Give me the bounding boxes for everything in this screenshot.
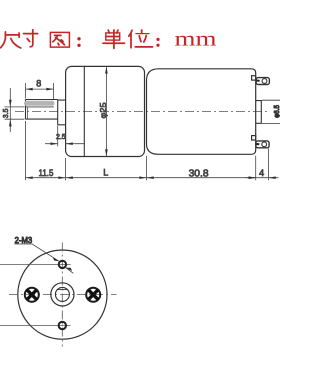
right screw	[86, 288, 100, 302]
dim 2.5 line	[45, 143, 84, 145]
svg-text:30.8: 30.8	[189, 168, 209, 179]
dim 2.5 arrows (outside)	[51, 142, 73, 145]
dim 4 tails	[246, 177, 279, 179]
bottom mounting hole M3	[59, 322, 66, 329]
center hub outer	[51, 283, 74, 306]
shaft outline	[26, 100, 58, 120]
svg-text:mm: mm	[175, 28, 217, 50]
top mounting hole M3	[59, 261, 66, 268]
left screw	[25, 288, 39, 302]
svg-text:2.5: 2.5	[56, 134, 66, 141]
svg-text:L: L	[103, 168, 108, 178]
shaft flat (grey)	[27, 101, 53, 106]
boss extension lines	[262, 100, 280, 123]
terminal bottom hole	[262, 142, 267, 147]
bore D-flat	[58, 289, 68, 291]
svg-text:11.5: 11.5	[39, 168, 54, 179]
dim φ25 arrows	[105, 66, 108, 156]
arrows 30.8	[147, 176, 256, 179]
terminal bottom tab	[252, 136, 256, 140]
svg-text:3.5: 3.5	[3, 108, 10, 118]
gearbox front plate line	[83, 67, 85, 157]
glyph 图	[50, 32, 69, 47]
terminal top dash	[257, 80, 260, 82]
leader line to bottom hole (from left edge)	[0, 325, 71, 327]
arrows 4 (outside)	[249, 176, 276, 179]
terminal bottom dash	[257, 143, 260, 145]
vertical centerline	[61, 243, 63, 347]
arrows L	[66, 176, 147, 179]
gearbox body	[66, 66, 145, 156]
centerline (side view axis)	[15, 111, 270, 113]
label underline + leader	[15, 244, 59, 261]
fullwidth colon 1	[77, 37, 80, 47]
dim 8 arrows	[26, 88, 54, 91]
glyph 寸	[24, 30, 38, 47]
dim 2.5 extension line	[57, 126, 59, 146]
dim φ25 line	[105, 66, 107, 156]
dim 8 extension lines	[26, 83, 54, 99]
second arrow (lower-right)	[66, 268, 73, 274]
terminal top plate	[256, 78, 269, 85]
motor body	[147, 69, 256, 155]
terminal top hole	[262, 79, 267, 84]
arrows 11.5	[26, 176, 66, 179]
dim line bottom	[26, 177, 269, 179]
dim 3.5 extension lines	[5, 107, 25, 119]
fullwidth colon 2	[156, 38, 159, 47]
dim 3.5 arrows (outside)	[9, 100, 12, 127]
horizontal centerline	[9, 294, 117, 296]
svg-text:2-M3: 2-M3	[15, 235, 33, 245]
title 尺寸图：单位：mm (red, drawn as strokes)	[1, 28, 217, 50]
glyph 尺	[1, 32, 21, 48]
glyph 单	[103, 30, 125, 48]
shaft end tick	[27, 107, 29, 119]
dim 3.5 line	[9, 88, 11, 132]
glyph 位	[129, 30, 153, 48]
shaft flat lower edge	[26, 106, 54, 108]
terminal bottom plate	[256, 141, 269, 148]
terminal top tab	[252, 76, 256, 80]
rear boss	[256, 101, 262, 124]
bottom dims extension lines	[26, 121, 269, 180]
leader line to top hole (from left edge)	[0, 263, 71, 265]
gearbox face circle	[18, 250, 107, 339]
svg-text:4: 4	[259, 168, 264, 178]
svg-text:8: 8	[36, 78, 41, 88]
center bore	[55, 287, 69, 301]
svg-text:φ25: φ25	[98, 102, 108, 118]
svg-text:φ6.5: φ6.5	[272, 105, 280, 118]
dim 8 line	[26, 88, 54, 90]
collar	[58, 100, 66, 126]
leader arrow into hole (upper-left)	[52, 257, 59, 261]
